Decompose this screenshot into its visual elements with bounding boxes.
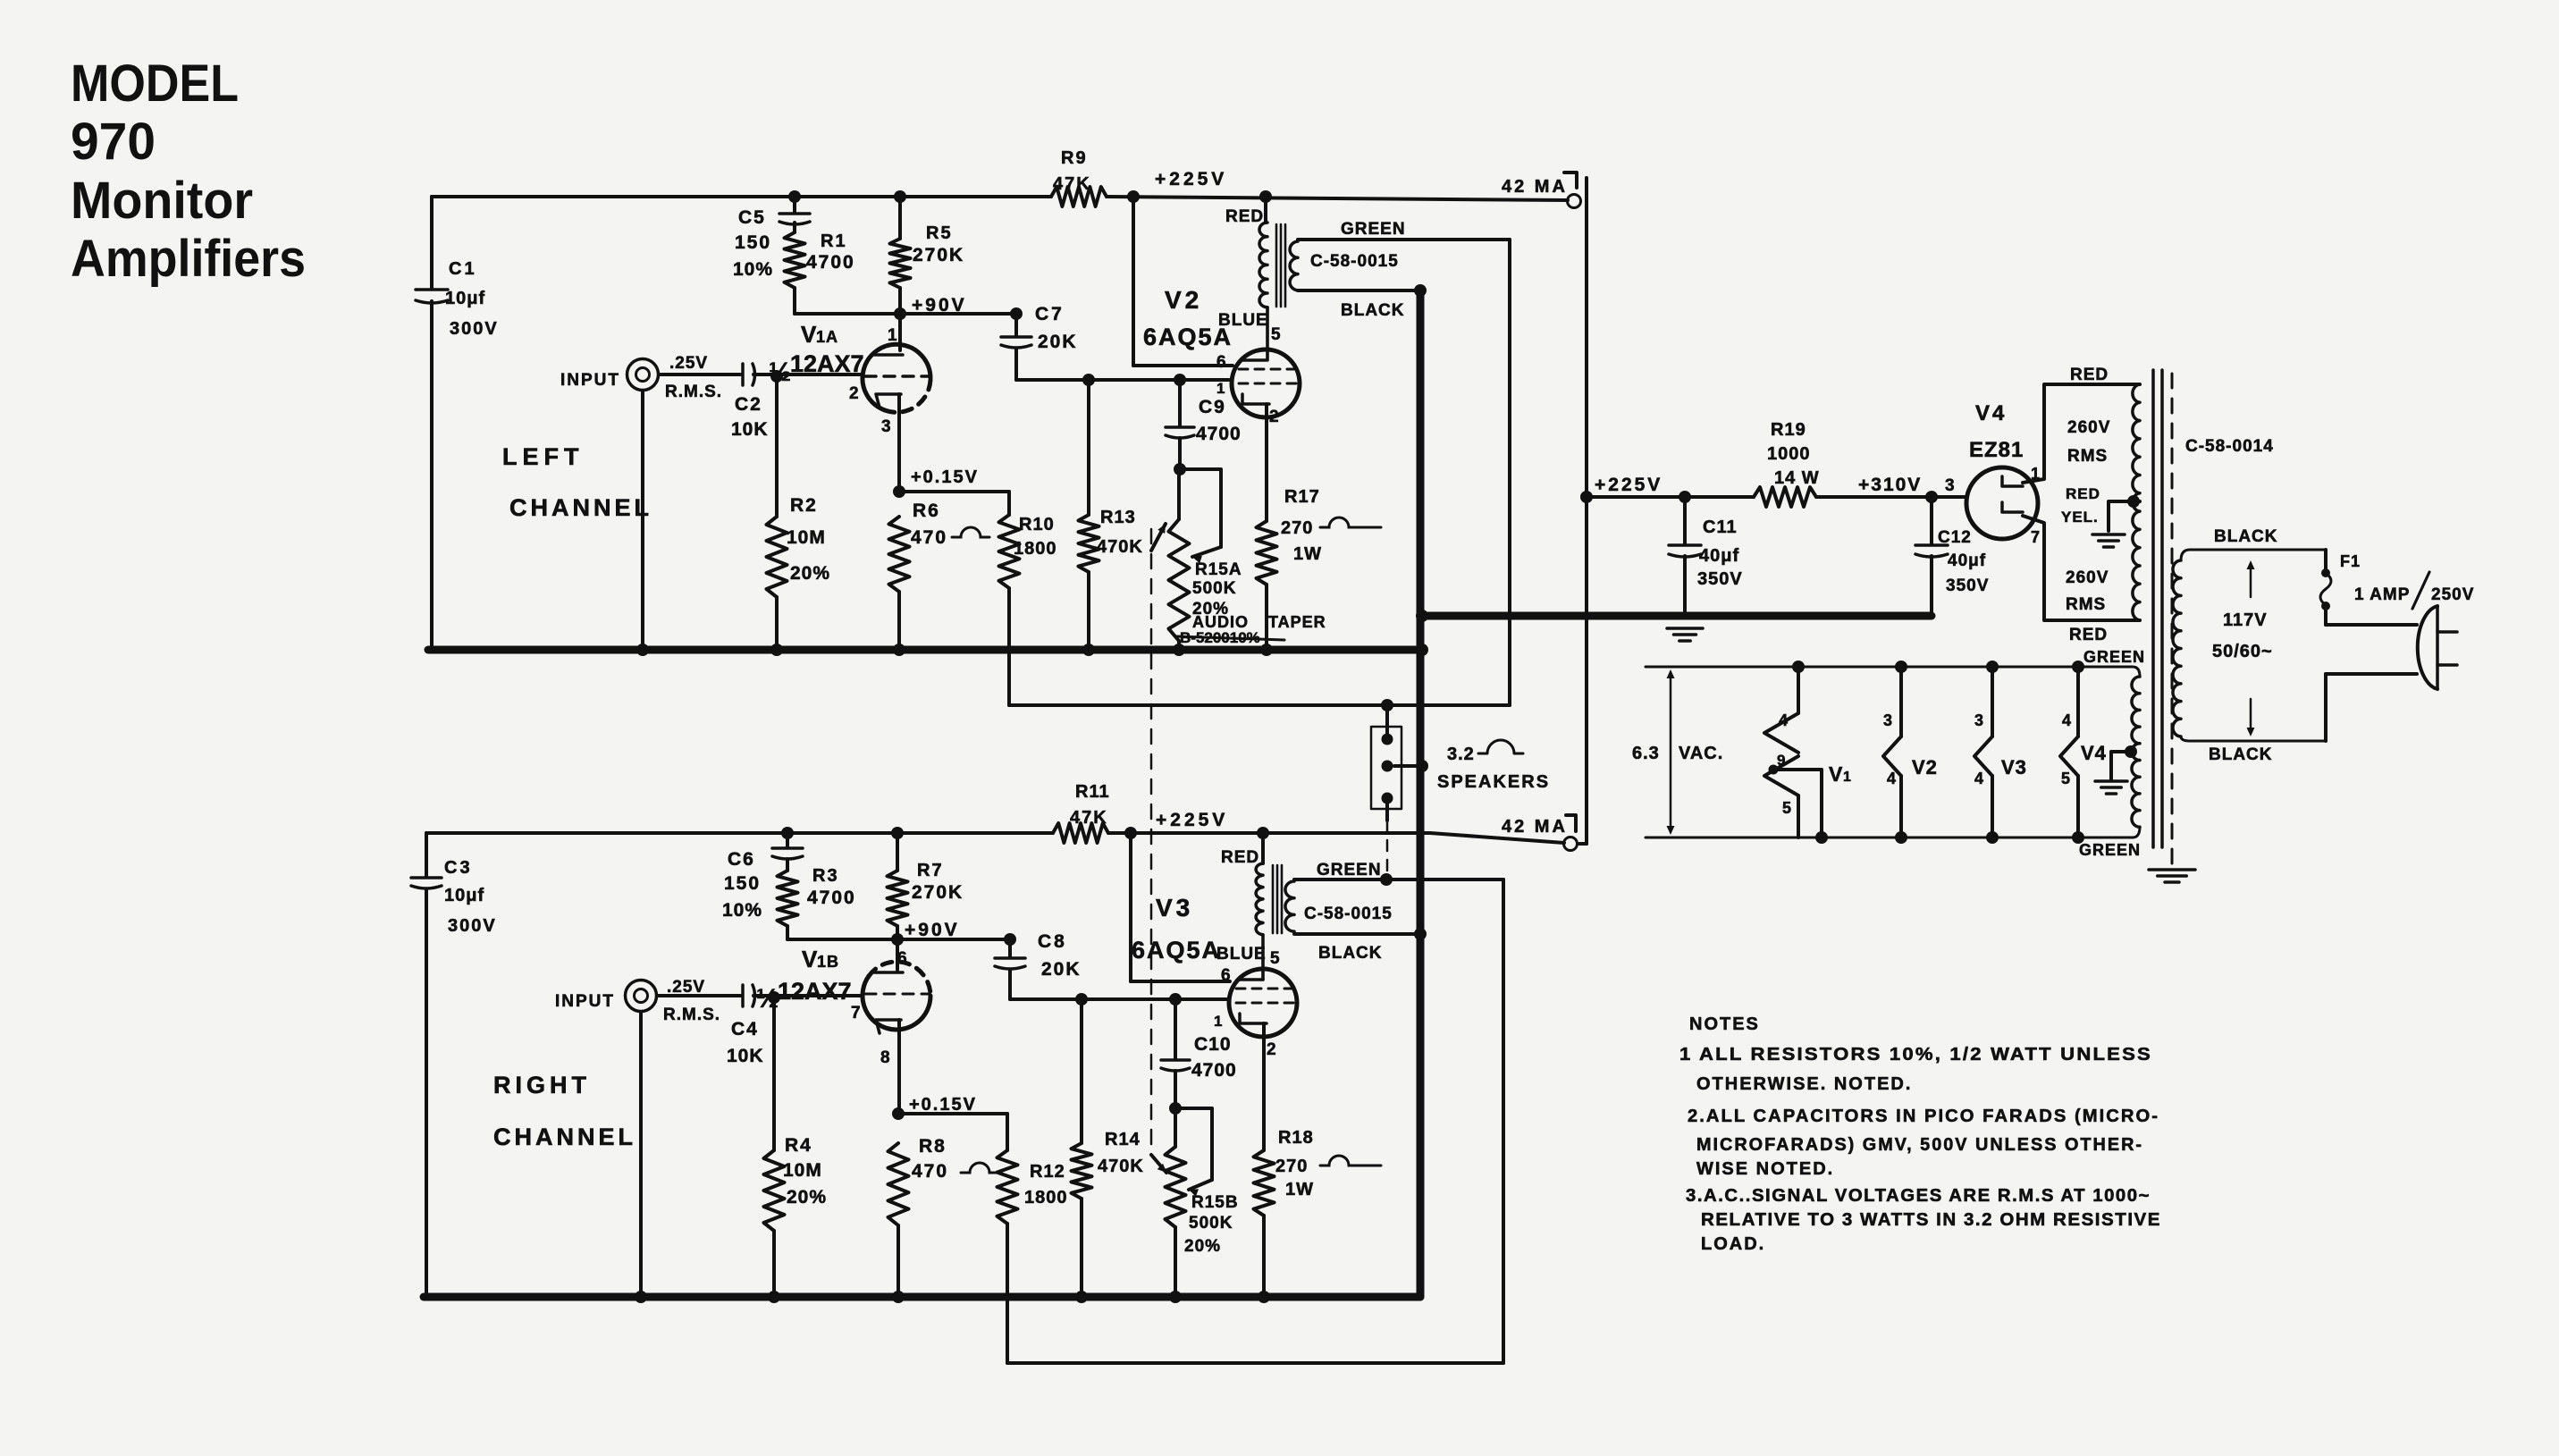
svg-text:8: 8: [880, 1048, 890, 1067]
svg-text:V: V: [802, 946, 818, 972]
svg-text:1800: 1800: [1014, 539, 1057, 559]
svg-text:260V: 260V: [2066, 568, 2109, 587]
svg-text:RELATIVE TO 3 WATTS IN 3.2 OHM: RELATIVE TO 3 WATTS IN 3.2 OHM RESISTIVE: [1701, 1210, 2161, 1230]
svg-text:500K: 500K: [1189, 1214, 1233, 1233]
svg-text:20%: 20%: [790, 563, 830, 584]
svg-text:7: 7: [851, 1004, 861, 1023]
svg-text:BLUE: BLUE: [1218, 311, 1268, 330]
svg-text:R9: R9: [1061, 148, 1088, 168]
svg-text:6AQ5A: 6AQ5A: [1132, 937, 1221, 964]
svg-text:20K: 20K: [1038, 332, 1078, 352]
svg-text:RED: RED: [1221, 848, 1259, 867]
svg-text:LEFT: LEFT: [502, 443, 585, 470]
svg-text:V2: V2: [1165, 286, 1202, 314]
svg-text:R11: R11: [1075, 782, 1110, 802]
svg-text:6.3: 6.3: [1632, 744, 1660, 763]
svg-text:1800: 1800: [1024, 1188, 1068, 1208]
svg-text:6: 6: [1221, 966, 1231, 985]
svg-text:B-520010%: B-520010%: [1180, 629, 1260, 646]
svg-text:R6: R6: [913, 501, 940, 521]
svg-text:270: 270: [1275, 1157, 1308, 1176]
svg-text:5: 5: [1782, 799, 1791, 817]
svg-text:1W: 1W: [1293, 544, 1322, 564]
svg-text:117V: 117V: [2223, 610, 2268, 630]
svg-text:GREEN: GREEN: [2083, 648, 2145, 666]
svg-text:10M: 10M: [783, 1160, 822, 1181]
svg-text:12AX7: 12AX7: [790, 350, 864, 377]
svg-text:RED: RED: [2069, 626, 2108, 644]
svg-text:OTHERWISE. NOTED.: OTHERWISE. NOTED.: [1696, 1074, 1912, 1094]
svg-text:GREEN: GREEN: [2079, 841, 2141, 859]
svg-text:C4: C4: [731, 1019, 759, 1039]
svg-text:GREEN: GREEN: [1317, 861, 1382, 879]
svg-text:½: ½: [769, 358, 791, 387]
svg-text:7: 7: [2031, 528, 2040, 546]
svg-text:4700: 4700: [1191, 1060, 1237, 1081]
svg-text:V2: V2: [1912, 756, 1938, 778]
svg-text:4700: 4700: [1196, 424, 1242, 444]
svg-text:9: 9: [1777, 752, 1785, 769]
svg-text:C3: C3: [444, 858, 473, 878]
svg-text:Amplifiers: Amplifiers: [71, 230, 306, 288]
svg-text:1 AMP: 1 AMP: [2354, 585, 2410, 604]
svg-text:R17: R17: [1284, 487, 1320, 507]
svg-text:C11: C11: [1703, 518, 1738, 537]
svg-text:R5: R5: [926, 223, 953, 243]
svg-text:4700: 4700: [806, 252, 855, 273]
svg-text:1: 1: [1214, 1013, 1222, 1030]
svg-text:V: V: [801, 321, 817, 348]
svg-text:270K: 270K: [912, 882, 964, 903]
svg-text:42 MA: 42 MA: [1502, 177, 1568, 197]
svg-text:3: 3: [881, 417, 891, 436]
svg-text:1W: 1W: [1285, 1180, 1314, 1199]
svg-text:+90V: +90V: [912, 295, 967, 316]
svg-text:500K: 500K: [1192, 579, 1236, 598]
svg-text:RED: RED: [1225, 207, 1264, 226]
svg-text:300V: 300V: [450, 319, 499, 339]
svg-text:2: 2: [849, 384, 859, 403]
svg-text:4: 4: [1779, 711, 1788, 729]
svg-text:R15A: R15A: [1195, 560, 1242, 579]
svg-text:R8: R8: [919, 1136, 947, 1157]
svg-text:R1: R1: [821, 231, 847, 251]
svg-text:470: 470: [911, 527, 947, 548]
svg-text:RED: RED: [2070, 366, 2109, 384]
svg-text:+0.15V: +0.15V: [911, 467, 979, 487]
svg-text:47K: 47K: [1053, 174, 1091, 194]
svg-text:C-58-0015: C-58-0015: [1304, 905, 1393, 923]
svg-text:RMS: RMS: [2066, 595, 2106, 614]
svg-text:3: 3: [1945, 476, 1955, 495]
svg-text:C7: C7: [1035, 304, 1065, 324]
svg-text:INPUT: INPUT: [555, 992, 615, 1011]
svg-text:2: 2: [1267, 1040, 1276, 1059]
svg-text:+225V: +225V: [1595, 475, 1663, 495]
svg-text:1: 1: [1843, 770, 1851, 785]
svg-text:.25V: .25V: [669, 354, 708, 373]
svg-text:C8: C8: [1038, 931, 1067, 952]
svg-text:CHANNEL: CHANNEL: [509, 494, 652, 521]
svg-text:MODEL: MODEL: [71, 55, 239, 113]
svg-text:150: 150: [724, 873, 761, 894]
svg-text:R18: R18: [1278, 1128, 1314, 1148]
svg-text:1A: 1A: [816, 328, 838, 346]
svg-text:14 W: 14 W: [1774, 468, 1820, 488]
svg-text:4: 4: [2062, 711, 2071, 729]
svg-text:R10: R10: [1019, 515, 1055, 534]
svg-text:R19: R19: [1771, 420, 1806, 440]
svg-text:10%: 10%: [733, 259, 773, 280]
svg-text:270: 270: [1281, 518, 1313, 538]
svg-text:C12: C12: [1938, 528, 1972, 547]
svg-text:470K: 470K: [1097, 537, 1143, 557]
svg-text:260V: 260V: [2067, 418, 2110, 437]
svg-text:+0.15V: +0.15V: [909, 1095, 977, 1115]
svg-text:2.ALL CAPACITORS IN PICO FARAD: 2.ALL CAPACITORS IN PICO FARADS (MICRO-: [1688, 1107, 2159, 1126]
svg-text:350V: 350V: [1946, 577, 1989, 595]
svg-text:4700: 4700: [807, 888, 856, 908]
svg-text:R.M.S.: R.M.S.: [663, 1006, 720, 1024]
svg-text:10M: 10M: [787, 527, 826, 548]
svg-text:TAPER: TAPER: [1268, 613, 1326, 631]
svg-text:47K: 47K: [1070, 808, 1108, 828]
svg-text:BLACK: BLACK: [2209, 745, 2273, 764]
svg-text:40μf: 40μf: [1948, 551, 1986, 570]
svg-text:10μf: 10μf: [444, 886, 484, 905]
svg-text:MICROFARADS) GMV, 500V UNLESS: MICROFARADS) GMV, 500V UNLESS OTHER-: [1696, 1135, 2143, 1155]
svg-text:INPUT: INPUT: [560, 371, 620, 390]
svg-text:R7: R7: [917, 861, 944, 880]
svg-text:GREEN: GREEN: [1341, 220, 1406, 239]
svg-text:42 MA: 42 MA: [1502, 817, 1568, 837]
svg-text:V4: V4: [1975, 401, 2007, 425]
svg-text:C-58-0014: C-58-0014: [2185, 437, 2274, 456]
svg-text:YEL.: YEL.: [2061, 509, 2099, 526]
svg-text:10%: 10%: [722, 900, 762, 921]
svg-text:BLACK: BLACK: [2214, 527, 2278, 546]
svg-text:250V: 250V: [2431, 585, 2474, 604]
svg-text:Monitor: Monitor: [71, 172, 253, 230]
svg-text:C2: C2: [735, 394, 762, 415]
svg-text:V4: V4: [2081, 742, 2107, 764]
svg-text:3: 3: [1883, 711, 1892, 729]
svg-text:R15B: R15B: [1191, 1193, 1239, 1212]
svg-text:1B: 1B: [817, 953, 839, 971]
svg-text:RIGHT: RIGHT: [493, 1072, 591, 1098]
svg-text:V3: V3: [2001, 756, 2027, 778]
svg-text:970: 970: [71, 113, 156, 171]
svg-text:R4: R4: [785, 1135, 812, 1156]
svg-text:4: 4: [1887, 770, 1896, 787]
svg-text:20%: 20%: [1184, 1237, 1221, 1256]
svg-text:470: 470: [912, 1161, 948, 1182]
svg-text:RMS: RMS: [2067, 447, 2108, 466]
svg-text:5: 5: [2061, 770, 2070, 787]
svg-text:R3: R3: [812, 866, 839, 886]
svg-text:1000: 1000: [1767, 444, 1811, 464]
svg-text:BLACK: BLACK: [1341, 301, 1405, 320]
svg-text:BLACK: BLACK: [1318, 944, 1383, 963]
svg-text:+310V: +310V: [1858, 475, 1922, 495]
svg-text:F1: F1: [2340, 552, 2361, 570]
svg-text:C6: C6: [728, 849, 755, 870]
svg-text:1: 1: [1216, 380, 1225, 397]
svg-text:R12: R12: [1030, 1162, 1065, 1182]
svg-text:3.2: 3.2: [1447, 745, 1475, 764]
svg-text:V: V: [1829, 762, 1843, 786]
svg-text:R13: R13: [1100, 508, 1136, 527]
svg-text:4: 4: [1974, 770, 1983, 787]
svg-text:6: 6: [897, 949, 907, 968]
svg-text:+225V: +225V: [1156, 810, 1228, 830]
svg-text:C-58-0015: C-58-0015: [1310, 252, 1399, 271]
svg-text:350V: 350V: [1697, 569, 1743, 589]
svg-text:V3: V3: [1156, 894, 1193, 922]
svg-text:10K: 10K: [727, 1046, 764, 1066]
svg-text:C9: C9: [1199, 397, 1226, 417]
svg-text:1 ALL RESISTORS 10%, 1/2 WATT: 1 ALL RESISTORS 10%, 1/2 WATT UNLESS: [1679, 1045, 2152, 1065]
svg-text:CHANNEL: CHANNEL: [493, 1124, 636, 1150]
svg-text:WISE NOTED.: WISE NOTED.: [1696, 1159, 1834, 1179]
svg-text:C10: C10: [1194, 1034, 1232, 1055]
svg-text:BLUE: BLUE: [1216, 945, 1267, 964]
svg-text:R2: R2: [790, 495, 818, 516]
svg-text:20K: 20K: [1041, 959, 1082, 980]
svg-text:270K: 270K: [913, 245, 964, 265]
svg-text:50/60~: 50/60~: [2212, 642, 2273, 661]
svg-text:470K: 470K: [1098, 1157, 1144, 1176]
svg-text:R14: R14: [1105, 1130, 1141, 1149]
svg-text:RED: RED: [2066, 485, 2100, 502]
svg-text:5: 5: [1271, 325, 1281, 344]
svg-text:R.M.S.: R.M.S.: [665, 383, 722, 401]
svg-text:2: 2: [1269, 408, 1279, 426]
svg-text:150: 150: [735, 232, 771, 253]
svg-text:.25V: .25V: [667, 978, 705, 997]
svg-text:3: 3: [1974, 711, 1983, 729]
svg-text:AUDIO: AUDIO: [1192, 613, 1249, 631]
svg-text:300V: 300V: [448, 916, 497, 936]
svg-text:+225V: +225V: [1155, 169, 1227, 189]
svg-text:12AX7: 12AX7: [778, 978, 852, 1005]
svg-text:C1: C1: [449, 259, 477, 279]
svg-text:SPEAKERS: SPEAKERS: [1437, 772, 1550, 792]
svg-text:1: 1: [888, 326, 897, 345]
svg-text:LOAD.: LOAD.: [1701, 1234, 1765, 1254]
svg-text:1: 1: [2031, 465, 2040, 483]
svg-text:EZ81: EZ81: [1969, 438, 2024, 462]
svg-text:10K: 10K: [731, 419, 769, 440]
svg-text:6: 6: [1216, 353, 1226, 372]
svg-text:5: 5: [1270, 949, 1280, 968]
svg-text:C5: C5: [738, 207, 766, 228]
svg-text:VAC.: VAC.: [1679, 744, 1723, 763]
svg-text:+90V: +90V: [905, 920, 960, 940]
svg-text:40μf: 40μf: [1699, 546, 1739, 566]
svg-text:20%: 20%: [787, 1187, 827, 1208]
svg-text:NOTES: NOTES: [1689, 1014, 1760, 1034]
svg-text:3.A.C..SIGNAL VOLTAGES ARE R.M: 3.A.C..SIGNAL VOLTAGES ARE R.M.S AT 1000…: [1686, 1186, 2151, 1206]
svg-text:½: ½: [756, 984, 779, 1014]
svg-text:10μf: 10μf: [445, 289, 485, 308]
